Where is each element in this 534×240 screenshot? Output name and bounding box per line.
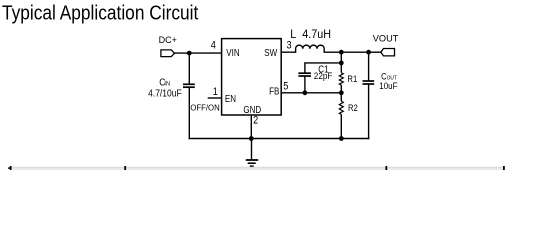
node GND junction xyxy=(249,136,254,141)
op IC U1 box xyxy=(222,39,282,115)
node FB/R1/R2 junction xyxy=(339,90,344,95)
svg-text:GND: GND xyxy=(243,104,261,115)
node SW/COUT junction xyxy=(366,50,371,55)
svg-text:22pF: 22pF xyxy=(314,70,333,81)
capacitor CIN xyxy=(183,53,195,139)
wire FB pin to divider xyxy=(281,92,341,94)
svg-text:DC+: DC+ xyxy=(159,35,177,45)
page rule below xyxy=(8,166,505,170)
svg-text:OFF/ON: OFF/ON xyxy=(190,103,220,112)
svg-text:SW: SW xyxy=(264,47,277,58)
wire bottom return rail xyxy=(189,138,370,140)
capacitor COUT xyxy=(363,52,375,139)
wire input rail DC+ to VIN pin xyxy=(175,52,222,54)
ground symbol xyxy=(246,139,258,167)
svg-text:3: 3 xyxy=(287,40,292,52)
connector DC+ xyxy=(159,35,177,57)
label COUT value xyxy=(379,72,397,91)
svg-text:2: 2 xyxy=(253,115,258,127)
resistor R1 xyxy=(339,52,343,93)
wire SW rail with inductor L xyxy=(281,45,381,52)
svg-text:R2: R2 xyxy=(348,102,358,113)
node input junction xyxy=(187,51,192,56)
svg-text:VOUT: VOUT xyxy=(373,34,399,44)
svg-text:FB: FB xyxy=(269,86,279,97)
svg-text:L 4.7uH: L 4.7uH xyxy=(290,28,331,40)
pin 1 EN stub wire xyxy=(208,97,222,99)
resistor R2 xyxy=(339,93,343,139)
svg-text:Typical Application Circuit: Typical Application Circuit xyxy=(2,2,199,25)
svg-text:10uF: 10uF xyxy=(379,80,397,91)
pin 2 GND wire xyxy=(250,115,252,139)
svg-text:IN: IN xyxy=(164,80,170,88)
label CIN value xyxy=(148,77,182,99)
svg-text:4: 4 xyxy=(211,40,216,52)
svg-text:R1: R1 xyxy=(347,73,357,84)
connector VOUT xyxy=(373,34,399,56)
svg-text:5: 5 xyxy=(283,81,288,93)
capacitor C1 xyxy=(298,63,341,93)
node C1 bottom tee xyxy=(303,90,308,95)
svg-text:EN: EN xyxy=(225,93,236,104)
svg-text:1: 1 xyxy=(213,87,218,99)
node C1 top tee xyxy=(339,61,344,66)
svg-text:4.7/10uF: 4.7/10uF xyxy=(148,88,182,99)
node SW/R1 junction xyxy=(339,50,344,55)
node R2 bottom junction xyxy=(339,136,344,141)
svg-text:VIN: VIN xyxy=(226,47,239,58)
